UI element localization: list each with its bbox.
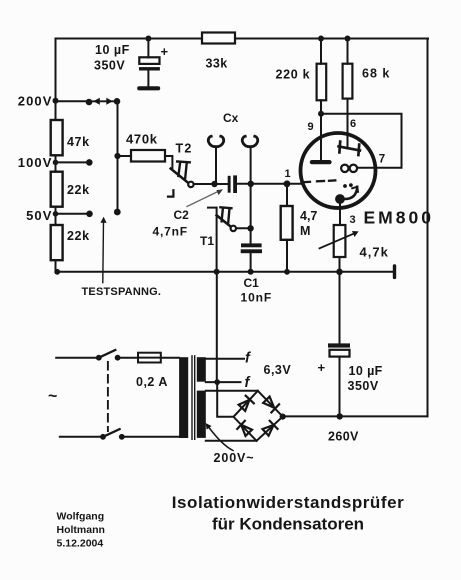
capacitor C 10uF top : lead — [147, 39, 149, 58]
wire heater drop upper — [216, 208, 218, 272]
resistor 4,7M body — [281, 206, 293, 240]
wire 4,7M bottom lead — [286, 240, 288, 272]
wire 260V line — [283, 415, 428, 417]
svg-text:1: 1 — [285, 168, 291, 180]
wire node A to C2 — [215, 183, 228, 185]
bridge rectifier diamond — [234, 391, 283, 441]
node bridge plus — [280, 414, 286, 420]
resistor 470k body — [131, 150, 165, 162]
wire pin1 into tube — [284, 183, 301, 185]
node switch S1a contact — [115, 355, 121, 361]
wire pot bottom lead — [339, 257, 341, 272]
diode D1 top-left — [239, 396, 254, 411]
switch T2 blade — [171, 169, 189, 184]
wire node B down to C1 — [250, 184, 252, 244]
resistor 220k body — [317, 64, 327, 101]
tube EM800 envelope — [301, 133, 376, 208]
electrode target pin 9 bar — [310, 160, 332, 164]
wire 68k bottom to pin 6 — [347, 99, 349, 149]
svg-text:9: 9 — [308, 121, 314, 133]
wire 22k bottom to rail — [55, 260, 57, 272]
testspannung arrow — [102, 220, 105, 283]
svg-text:T2: T2 — [176, 142, 193, 156]
mains lower wire — [60, 436, 103, 438]
transformer secondary 6,3V winding — [197, 357, 206, 382]
diode D4 bottom-right — [263, 421, 278, 436]
wire C1 bottom lead — [250, 253, 252, 272]
transformer secondary 200V winding — [197, 391, 206, 438]
node PSU cap bottom — [337, 413, 343, 419]
clip Cx right fork — [250, 149, 252, 184]
node 50V socket — [86, 211, 93, 218]
svg-text:220 k: 220 k — [276, 67, 311, 81]
wire right bus down — [427, 39, 429, 417]
wire 47k to 22k — [55, 155, 57, 171]
fuse 0,2A body — [138, 353, 161, 363]
capacitor C2 plates — [228, 176, 231, 193]
wire 100V tap — [56, 161, 90, 163]
svg-text:10nF: 10nF — [241, 291, 273, 305]
wire heater to bridge minus — [217, 382, 233, 417]
svg-text:4,7nF: 4,7nF — [153, 225, 188, 239]
svg-text:6: 6 — [350, 118, 356, 130]
wire 470k branch — [118, 155, 132, 157]
node 220k top — [318, 36, 324, 42]
node 100V tap — [53, 160, 59, 166]
wire top rail right — [235, 38, 428, 40]
capacitor C 10uF top : plus plate (hollow) — [139, 57, 159, 64]
diode D2 top-right — [263, 397, 279, 413]
svg-text:4,7: 4,7 — [300, 209, 317, 223]
switch T2 rest hook — [168, 190, 173, 196]
wire ground rail — [57, 271, 395, 273]
svg-text:0,2 A: 0,2 A — [136, 375, 168, 389]
clip Cx left fork — [215, 149, 217, 185]
svg-text:10 µF: 10 µF — [349, 364, 383, 378]
node rail C1 — [248, 269, 254, 275]
node 68k top — [345, 36, 351, 42]
svg-text:TESTSPANNG.: TESTSPANNG. — [82, 286, 162, 298]
node selector 470k branch — [114, 153, 120, 159]
wire 47k top lead — [55, 101, 57, 120]
node anode junction — [318, 111, 324, 117]
node rail PSU cap — [336, 269, 343, 276]
ground bar under C 10uF — [137, 86, 160, 90]
switch T2 contact — [188, 182, 193, 187]
node switch S1b pivot — [100, 434, 106, 440]
svg-text:+: + — [161, 44, 169, 59]
svg-text:10 µF: 10 µF — [95, 43, 130, 57]
switch S1b blade — [103, 429, 120, 437]
svg-text:260V: 260V — [328, 430, 359, 444]
wire filament tap 1 — [206, 358, 244, 360]
wire fuse to transformer — [161, 357, 179, 359]
grid dashed line pin 1 — [302, 180, 336, 182]
mains upper wire — [56, 357, 99, 359]
resistor 33k body — [202, 33, 235, 44]
node A left Cx — [211, 181, 217, 187]
svg-text:Holtmann: Holtmann — [57, 524, 105, 536]
switch T1 plunger — [220, 207, 231, 223]
wire to fuse — [118, 357, 138, 359]
node rail heater drop — [214, 269, 220, 275]
wire pin 3 cathode lead — [339, 204, 341, 225]
electrode shadow pin 6 — [339, 142, 360, 155]
svg-text:22k: 22k — [67, 229, 90, 243]
wire T1 to node C — [236, 227, 250, 229]
svg-text:Wolfgang: Wolfgang — [57, 511, 105, 523]
grid dots — [343, 184, 347, 188]
resistor 47k body — [51, 120, 63, 155]
svg-text:Isolationwiderstandsprüfer: Isolationwiderstandsprüfer — [172, 493, 405, 512]
wire 220k top lead — [320, 39, 322, 64]
wire 220k bottom to pin 9 — [320, 100, 322, 160]
wire 200V tap — [56, 100, 90, 102]
resistor 22k upper body — [51, 172, 63, 207]
capacitor PSU 10uF plus plate hollow — [330, 350, 350, 357]
wire PSU cap drop from rail — [339, 272, 341, 344]
svg-text:Cx: Cx — [223, 111, 239, 125]
svg-text:für Kondensatoren: für Kondensatoren — [212, 515, 364, 534]
svg-text:350V: 350V — [94, 58, 125, 72]
wire 4,7M top lead — [286, 184, 288, 206]
svg-text:200V~: 200V~ — [214, 451, 255, 465]
switch link dashed — [107, 362, 109, 431]
node B right Cx — [248, 181, 254, 187]
capacitor PSU 10uF minus plate — [328, 343, 350, 347]
capacitor C 10uF top : lower lead — [147, 71, 149, 86]
cathode curved arrow — [344, 187, 358, 199]
electrode grid circles pin 7 — [341, 165, 348, 172]
node selector bottom — [114, 209, 121, 216]
wire 50V tap — [56, 213, 90, 215]
svg-text:3: 3 — [350, 214, 356, 226]
node heater junction — [214, 379, 220, 385]
node C C1 top — [247, 225, 253, 231]
svg-text:47k: 47k — [67, 135, 90, 149]
node 100V socket — [86, 159, 93, 166]
node selector top — [114, 98, 121, 105]
node 50V tap — [53, 211, 59, 217]
potentiometer 4,7k body — [334, 225, 346, 257]
wire C2 to node B — [237, 183, 284, 185]
selector link with arrows — [89, 100, 118, 102]
terminal bar right end of rail — [393, 264, 396, 279]
node pin1 — [284, 180, 291, 187]
svg-text:T1: T1 — [200, 234, 214, 248]
switch T2 plunger — [177, 162, 190, 179]
node 200V tap on bus — [53, 98, 59, 104]
svg-text:22k: 22k — [67, 183, 90, 197]
capacitor C1 plates — [241, 243, 262, 247]
switch T1 contact — [231, 226, 236, 231]
node rail 4,7M — [284, 269, 290, 275]
wire to transformer primary bottom — [122, 436, 179, 438]
pointer arrow to C2 — [187, 191, 220, 207]
potentiometer 4,7k arrow — [320, 233, 355, 248]
svg-text:~: ~ — [48, 388, 57, 405]
node 200V socket — [86, 99, 93, 106]
svg-text:100V: 100V — [18, 155, 53, 170]
svg-text:68 k: 68 k — [362, 67, 390, 81]
wire heater drop lower — [216, 272, 218, 382]
wire 200V winding bottom lead — [206, 440, 257, 442]
wire 200V winding top lead — [206, 390, 258, 392]
svg-text:C2: C2 — [174, 208, 190, 222]
pointer arrow 200V winding — [208, 427, 233, 451]
transformer core — [192, 356, 195, 440]
svg-text:M: M — [300, 224, 310, 238]
switch S1a blade — [99, 350, 116, 358]
svg-text:50V: 50V — [26, 208, 52, 223]
node switch S1b contact — [119, 434, 125, 440]
svg-text:4,7k: 4,7k — [360, 245, 389, 260]
svg-text:EM800: EM800 — [364, 208, 434, 228]
cathode blob — [335, 194, 345, 204]
wire PSU cap lower lead — [339, 357, 341, 417]
wire 22k to 22k — [55, 207, 57, 225]
svg-text:5.12.2004: 5.12.2004 — [57, 538, 104, 550]
svg-text:200V: 200V — [18, 94, 53, 109]
diode D3 bottom-left — [237, 421, 252, 436]
wire filament tap 2 — [206, 381, 241, 383]
svg-text:470k: 470k — [126, 131, 158, 146]
capacitor C 10uF top : minus plate — [139, 67, 160, 70]
node rail left end — [54, 269, 60, 275]
wire left bus top — [55, 39, 57, 102]
svg-text:350V: 350V — [348, 379, 379, 393]
switch T1 stub — [208, 207, 217, 209]
transformer primary winding — [179, 357, 188, 438]
svg-text:7: 7 — [379, 154, 385, 166]
wire pin9 to pin7 loop — [321, 114, 402, 168]
wire 470k right lead — [165, 156, 172, 170]
switch T1 blade — [217, 215, 232, 227]
resistor 22k lower body — [51, 225, 63, 260]
svg-text:C1: C1 — [244, 276, 260, 290]
node switch S1a pivot — [96, 355, 102, 361]
resistor 68k body — [343, 64, 353, 99]
wire selector bus — [117, 101, 119, 212]
svg-text:+: + — [318, 360, 326, 375]
wire top rail left — [56, 38, 203, 40]
node top rail / C elko — [145, 36, 151, 42]
svg-text:33k: 33k — [206, 57, 228, 71]
wire 68k top lead — [347, 39, 349, 64]
svg-text:6,3V: 6,3V — [264, 363, 292, 377]
wire T2 to node A — [194, 183, 215, 185]
